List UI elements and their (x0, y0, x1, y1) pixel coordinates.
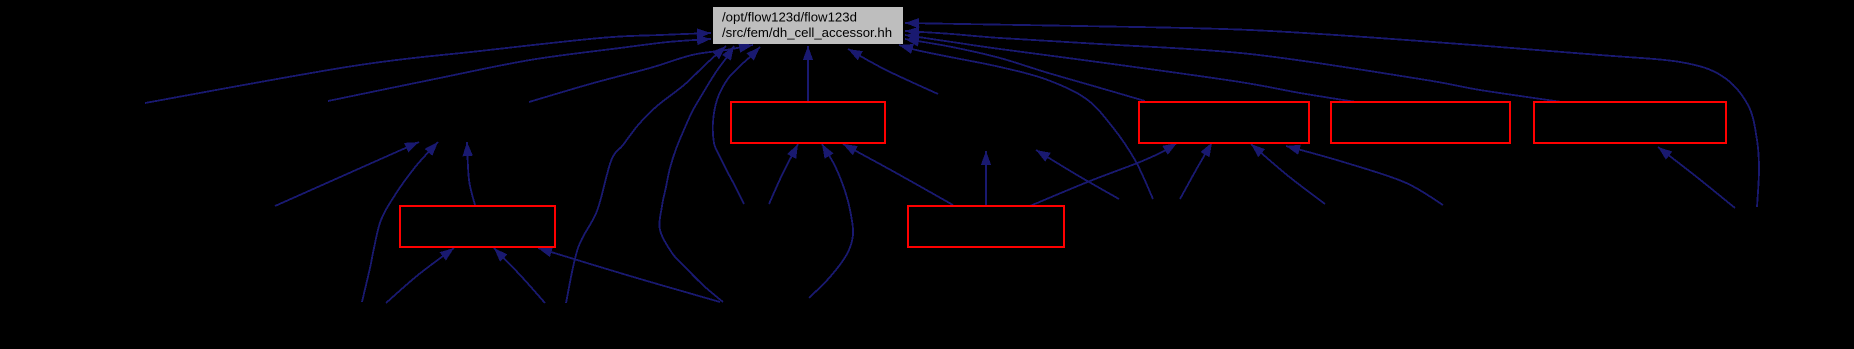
edge node N2a to node G2 (1036, 150, 1119, 199)
edge node E to main header (905, 32, 1356, 102)
edge far-left node to node G1 (275, 142, 419, 206)
edge node M2b to node A (769, 144, 798, 204)
edge node N2b2 to node D (1251, 144, 1325, 204)
node B (red) (400, 206, 555, 247)
edge node-left-2 to main header (328, 35, 711, 101)
edge node C to node D (1030, 143, 1177, 206)
node E (red) (1331, 102, 1510, 143)
edge node D to main header (905, 36, 1145, 101)
node F (red) (1534, 102, 1726, 143)
edge node N3 to node F (1658, 147, 1735, 208)
edge node G2 to main header (848, 49, 938, 94)
svg-text:/src/fem/dh_cell_accessor.hh: /src/fem/dh_cell_accessor.hh (722, 25, 892, 40)
edge bottom node N1 to main header (659, 46, 734, 302)
edge node G1 to main header (529, 42, 753, 102)
edge bottom node b2 to main header (566, 46, 726, 303)
edge node-left-1 to main header (145, 28, 711, 103)
edge node C to node A (843, 144, 953, 205)
edge node N3 to main header, right bow (905, 18, 1759, 207)
edge node M2a to main header (713, 47, 760, 204)
edge bottom node N1 to node B (538, 247, 720, 302)
edge node A to main header (803, 46, 813, 102)
edge node C to node G2 (981, 151, 991, 206)
edge node N2a to node D 2 (1180, 143, 1212, 200)
node A (red) (731, 102, 885, 143)
node C (red) (908, 206, 1064, 247)
edge bottom node a2 to node B (386, 248, 454, 303)
svg-text:/opt/flow123d/flow123d: /opt/flow123d/flow123d (722, 10, 857, 25)
edge node B to node G1 (463, 142, 476, 205)
edge node F to main header (905, 27, 1562, 102)
edge node N2a to main header corner (899, 44, 1153, 199)
node D (red) (1139, 102, 1309, 143)
edge node N2c to node D (1286, 145, 1443, 205)
edge bottom node a1 to node G1 (362, 142, 438, 302)
edge bottom node b1 to node B (494, 248, 545, 303)
edge bottom node e to node A, right arc (809, 144, 853, 298)
main node /opt/flow123d/flow123d /src/fem/dh_cell_accessor.hh (gray) (713, 7, 903, 44)
